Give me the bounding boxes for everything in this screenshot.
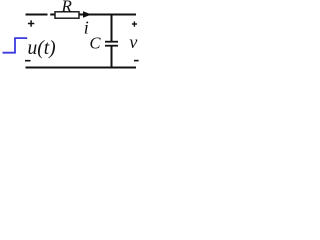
- node + (left top terminal): [28, 20, 34, 26]
- svg-text:R: R: [61, 0, 73, 16]
- svg-text:i: i: [84, 18, 89, 38]
- resistor R: [55, 12, 79, 18]
- voltage source step symbol u(t): [3, 38, 28, 53]
- wire: capacitor branch vertical top: [111, 14, 113, 42]
- current arrow on top wire: [83, 11, 92, 18]
- wire: top horizontal, left segment from + terminal: [26, 14, 48, 16]
- svg-text:u(t): u(t): [28, 38, 56, 59]
- capacitor C top plate: [105, 41, 118, 43]
- node - (left bottom terminal): [25, 60, 31, 62]
- svg-text:C: C: [90, 33, 102, 52]
- svg-text:v: v: [129, 32, 137, 52]
- wire: top horizontal, stub into resistor and on to right terminal: [50, 14, 136, 16]
- capacitor C bottom plate: [105, 45, 118, 47]
- node - (right bottom terminal): [134, 60, 139, 62]
- wire: bottom horizontal return: [26, 67, 137, 69]
- node + (right top terminal): [132, 21, 137, 26]
- wire: capacitor branch vertical bottom: [111, 46, 113, 69]
